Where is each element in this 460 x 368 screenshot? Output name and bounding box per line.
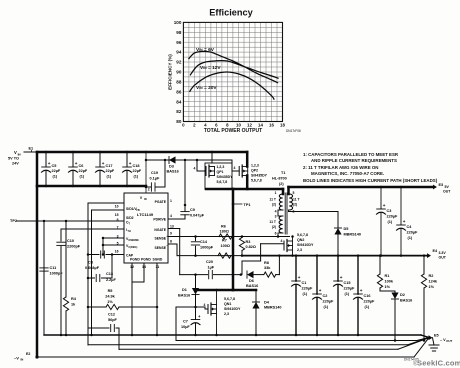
transistor QN1: [207, 305, 209, 314]
svg-text:D1: D1: [182, 288, 187, 292]
svg-text:Si9435DY: Si9435DY: [251, 174, 268, 178]
svg-text:Si9410DY: Si9410DY: [224, 307, 241, 311]
svg-text:C14: C14: [200, 240, 208, 244]
diode D5: [337, 212, 339, 229]
diode D3: [169, 156, 176, 163]
svg-text:18: 18: [280, 122, 285, 127]
svg-text:(1): (1): [324, 305, 329, 309]
svg-text:(2): (2): [272, 203, 276, 207]
svg-text:98: 98: [176, 30, 182, 35]
svg-text:PGND: PGND: [141, 258, 151, 262]
T1 core: [284, 193, 286, 234]
svg-text:QP2: QP2: [251, 169, 258, 173]
capacitor C17: [99, 152, 101, 167]
transistor QP2: [238, 167, 240, 176]
svg-text:10µF: 10µF: [181, 325, 190, 329]
resistor R5: [88, 306, 106, 308]
wire PGATE riser: [184, 160, 186, 205]
svg-text:+: +: [298, 275, 301, 280]
svg-text:FB: FB: [136, 209, 140, 212]
svg-text:D6: D6: [249, 279, 254, 283]
svg-text:1000pF: 1000pF: [200, 246, 214, 250]
svg-text:10: 10: [115, 205, 119, 209]
svg-text:(1): (1): [134, 175, 139, 179]
svg-text:12: 12: [247, 122, 252, 127]
svg-text:220µF: 220µF: [344, 287, 356, 291]
wire QN1 gate line: [176, 306, 205, 308]
svg-text:R2: R2: [429, 274, 434, 278]
wire 3.3V return line: [242, 255, 427, 257]
svg-text:C13: C13: [106, 272, 113, 276]
capacitor C19: [146, 186, 151, 188]
wire pin3/pin5 tie: [103, 237, 124, 239]
wire T1 center tap: [278, 209, 283, 211]
svg-text:VIN = 6V: VIN = 6V: [196, 47, 215, 53]
svg-text:10: 10: [236, 122, 241, 127]
svg-text:2,3: 2,3: [224, 312, 229, 316]
svg-text:TH: TH: [127, 230, 131, 233]
chart frame: [183, 22, 282, 121]
wire QN2 source: [292, 250, 294, 256]
wire C11 riser: [43, 221, 45, 335]
svg-text:124k: 124k: [429, 280, 438, 284]
capacitor C4: [400, 187, 402, 225]
svg-text:2,3: 2,3: [297, 248, 302, 252]
wire NGATE drop: [168, 228, 180, 230]
diode D6: [247, 271, 254, 278]
svg-text:OUT: OUT: [443, 190, 451, 194]
svg-text:R8: R8: [264, 261, 269, 265]
capacitor C18: [126, 152, 128, 167]
transistor QN2: [283, 241, 285, 250]
svg-text:C6: C6: [79, 164, 84, 168]
svg-text:1: CAPACITORS PARALLELED TO ME: 1: CAPACITORS PARALLELED TO MEET ESR: [303, 152, 399, 157]
svg-text:C8: C8: [88, 261, 93, 265]
wire QN2 drain: [292, 237, 294, 242]
svg-text:BAS16: BAS16: [167, 170, 179, 174]
svg-text:QP1: QP1: [217, 170, 224, 174]
svg-text:0.047µF: 0.047µF: [190, 214, 205, 218]
capacitor C3: [380, 187, 382, 209]
svg-text:+: +: [102, 161, 105, 166]
wire bold return mid: [196, 289, 234, 292]
resistor R4: [65, 221, 67, 297]
svg-text:16: 16: [269, 122, 274, 127]
svg-text:22µF: 22µF: [133, 169, 142, 173]
svg-text:–V: –V: [14, 356, 19, 361]
svg-text:PDRIVE: PDRIVE: [153, 218, 166, 222]
svg-text:D3: D3: [169, 165, 174, 169]
svg-text:TOTAL POWER OUTPUT: TOTAL POWER OUTPUT: [204, 128, 262, 134]
wire QN1 source: [216, 314, 218, 336]
svg-text:C1: C1: [302, 281, 307, 285]
svg-text:MBRS140: MBRS140: [344, 233, 362, 237]
svg-text:14: 14: [258, 122, 263, 127]
svg-text:4: 4: [275, 210, 277, 214]
svg-text:– V: – V: [440, 338, 446, 342]
svg-text:1: 1: [170, 199, 172, 203]
capacitor C15: [337, 256, 339, 281]
wire QP1 drain to rail: [211, 152, 213, 163]
svg-text:(2): (2): [272, 225, 276, 229]
resistor R3: [241, 235, 244, 238]
svg-text:96: 96: [176, 40, 182, 45]
svg-text:5,6,7,8: 5,6,7,8: [297, 233, 308, 237]
svg-text:+: +: [340, 275, 343, 280]
svg-text:NGATE: NGATE: [154, 228, 166, 232]
svg-text:E1: E1: [29, 147, 34, 151]
svg-text:C7: C7: [183, 320, 188, 324]
node E2 / wire -VIN bus: [37, 356, 414, 358]
svg-text:Si9435DY: Si9435DY: [217, 175, 234, 179]
svg-text:PGATE: PGATE: [155, 200, 167, 204]
svg-text:SGND: SGND: [153, 258, 163, 262]
svg-text:DN17•F05: DN17•F05: [404, 358, 419, 362]
svg-text:SENSE: SENSE: [155, 246, 167, 250]
svg-text:2.2µF: 2.2µF: [106, 278, 116, 282]
capacitor C9: [184, 205, 186, 212]
svg-text:1,2,3: 1,2,3: [217, 165, 225, 169]
svg-text:BOLD LINES INDICATES HIGH CURR: BOLD LINES INDICATES HIGH CURRENT PATH (…: [303, 178, 438, 183]
svg-text:11 T: 11 T: [269, 198, 277, 202]
svg-text:1: 1: [275, 191, 277, 195]
svg-text:(1): (1): [408, 236, 413, 240]
wire QP2 gate: [231, 160, 233, 171]
capacitor C13: [88, 277, 95, 279]
svg-text:92: 92: [176, 60, 182, 65]
svg-text:220µF: 220µF: [364, 300, 376, 304]
node E4: [427, 253, 431, 258]
svg-text:11 T: 11 T: [293, 198, 301, 202]
diode D1: [195, 275, 197, 288]
wire S/D2 (pin15): [92, 209, 125, 211]
capacitor C12: [88, 327, 109, 329]
capacitor C11: [40, 267, 48, 269]
svg-text:(1): (1): [53, 175, 58, 179]
wire input cap bottom rail: [37, 185, 146, 188]
svg-text:13: 13: [170, 225, 174, 229]
wire ground bus B (y340.5): [176, 340, 417, 342]
wire gate drive line: [146, 159, 232, 161]
svg-text:4: 4: [194, 167, 196, 171]
svg-text:+: +: [48, 161, 51, 166]
svg-text:(1): (1): [80, 175, 85, 179]
svg-text:220µF: 220µF: [407, 231, 419, 235]
wire CAP pin / capacitor C8: [88, 254, 99, 256]
svg-text:C17: C17: [106, 164, 113, 168]
wire PGND pins: [131, 263, 133, 282]
wire x88 to bus: [87, 328, 89, 345]
capacitor C14: [195, 237, 197, 241]
resistor R2: [423, 256, 425, 274]
svg-text:TP2: TP2: [10, 219, 17, 223]
svg-text:C(REG): C(REG): [128, 246, 137, 249]
svg-text:33k: 33k: [264, 266, 271, 270]
svg-text:100k: 100k: [385, 280, 394, 284]
svg-text:94: 94: [176, 50, 182, 55]
svg-text:2: 11 T TRIFILAR AWG #26 WIRE: 2: 11 T TRIFILAR AWG #26 WIRE ON: [303, 165, 378, 170]
svg-text:E3: E3: [439, 183, 444, 187]
svg-text:16: 16: [115, 250, 119, 254]
wire SGND pin 11: [156, 263, 158, 335]
svg-text:C18: C18: [133, 164, 140, 168]
svg-text:5,6,7,8: 5,6,7,8: [251, 179, 262, 183]
svg-text:4: 4: [170, 214, 172, 218]
svg-text:BAS16: BAS16: [246, 284, 258, 288]
svg-text:24.9k: 24.9k: [105, 295, 115, 299]
node TP1: [232, 189, 235, 290]
svg-text:R3: R3: [246, 240, 251, 244]
svg-text:86: 86: [176, 89, 182, 94]
wire ground bus C (y344.8): [88, 344, 408, 346]
svg-text:0.068µF: 0.068µF: [85, 266, 100, 270]
svg-text:22µF: 22µF: [52, 169, 61, 173]
svg-text:T1: T1: [281, 171, 285, 175]
wire S/D1 (pin10): [88, 202, 124, 204]
svg-text:QN1: QN1: [224, 302, 231, 306]
svg-text:(1): (1): [345, 292, 350, 296]
wire PDRIVE to C9: [168, 218, 185, 220]
wire VIN drop to IC pin 2: [145, 152, 147, 193]
wire R8 up to return: [278, 256, 280, 275]
svg-text:SENSE: SENSE: [155, 237, 167, 241]
svg-text:80: 80: [176, 119, 182, 124]
resistor R1: [379, 256, 381, 274]
capacitor C1: [295, 256, 297, 281]
svg-text:0.82Ω: 0.82Ω: [246, 245, 256, 249]
svg-text:5,6,7,8: 5,6,7,8: [224, 297, 235, 301]
svg-text:C2: C2: [323, 294, 328, 298]
svg-text:1,2,3: 1,2,3: [251, 164, 259, 168]
svg-text:11 T: 11 T: [269, 220, 277, 224]
svg-text:(1): (1): [303, 292, 308, 296]
svg-text:D5: D5: [344, 227, 349, 231]
svg-text:C11: C11: [50, 266, 57, 270]
svg-text:6: 6: [275, 232, 277, 236]
svg-text:56pF: 56pF: [108, 318, 118, 322]
svg-text:2: 2: [148, 188, 150, 192]
wire QN1 drain: [216, 290, 218, 305]
svg-text:PGND: PGND: [130, 258, 140, 262]
svg-text:TP1: TP1: [244, 203, 251, 207]
wire secondary pin2: [288, 210, 290, 212]
wire QP2 drain from rail: [246, 152, 249, 167]
svg-text:C15: C15: [344, 281, 351, 285]
svg-text:9: 9: [170, 232, 172, 236]
svg-text:Efficiency: Efficiency: [209, 8, 253, 18]
svg-text:BAS16: BAS16: [400, 299, 412, 303]
resistor R7: [218, 253, 231, 258]
svg-text:220µF: 220µF: [302, 287, 314, 291]
wire SENSE+ line: [168, 236, 290, 238]
capacitor C7: [195, 307, 197, 320]
wire ITH pin to C10: [61, 228, 124, 230]
svg-text:(2): (2): [293, 203, 297, 207]
svg-text:5: 5: [293, 191, 295, 195]
svg-text:IN: IN: [21, 358, 24, 362]
svg-text:8: 8: [170, 240, 172, 244]
capacitor C20: [180, 274, 208, 276]
svg-text:+: +: [129, 161, 132, 166]
svg-text:C9: C9: [190, 208, 195, 212]
svg-text:MBRS140: MBRS140: [264, 306, 282, 310]
svg-text:C20: C20: [206, 260, 213, 264]
svg-text:22µF: 22µF: [79, 169, 88, 173]
svg-text:180Ω: 180Ω: [220, 230, 229, 234]
svg-text:LTC1149: LTC1149: [137, 212, 154, 217]
svg-text:3: 3: [275, 215, 277, 219]
capacitor C10: [57, 241, 65, 243]
svg-text:(1): (1): [388, 220, 393, 224]
svg-text:+: +: [75, 161, 78, 166]
svg-text:S/D2: S/D2: [126, 216, 134, 220]
svg-text:15: 15: [115, 213, 119, 217]
wire QP1 gate entry: [197, 170, 206, 172]
svg-text:1µF: 1µF: [208, 266, 215, 270]
svg-text:IN: IN: [144, 197, 147, 201]
capacitor C6: [72, 152, 74, 167]
wire ground bus A (y335): [44, 334, 421, 336]
svg-text:QN2: QN2: [297, 238, 304, 242]
svg-text:100: 100: [174, 20, 182, 25]
svg-text:R6: R6: [221, 225, 226, 229]
svg-text:OSENSE: OSENSE: [128, 239, 139, 242]
wire C12 to bus: [118, 328, 120, 350]
svg-text:100Ω: 100Ω: [221, 244, 230, 248]
svg-text:V: V: [14, 150, 17, 155]
svg-text:E2: E2: [26, 352, 30, 356]
svg-text:+: +: [403, 219, 406, 224]
svg-text:Si9410DY: Si9410DY: [297, 243, 314, 247]
svg-text:+: +: [360, 288, 363, 293]
wire 5V output line: [289, 186, 434, 189]
svg-text:DN17•F06: DN17•F06: [286, 129, 301, 133]
svg-text:220µF: 220µF: [323, 300, 335, 304]
svg-text:+: +: [319, 288, 322, 293]
svg-text:C12: C12: [108, 313, 115, 317]
svg-text:E5: E5: [434, 334, 439, 338]
node E3: [433, 185, 437, 190]
svg-text:84: 84: [176, 99, 182, 104]
wire QN2 gate staircase: [241, 261, 243, 275]
svg-text:22µF: 22µF: [106, 169, 115, 173]
svg-text:SeekIC.com: SeekIC.com: [417, 359, 460, 368]
transistor QP1: [205, 163, 232, 189]
svg-text:OUT: OUT: [446, 339, 452, 343]
wire bold return mid right: [233, 289, 256, 292]
svg-text:5V: 5V: [445, 185, 450, 189]
svg-text:3.3V: 3.3V: [439, 251, 447, 255]
svg-text:24V: 24V: [12, 162, 19, 166]
wire secondary pin5 to 5V: [287, 187, 290, 194]
svg-text:(2): (2): [279, 182, 284, 186]
svg-text:0.1µF: 0.1µF: [150, 177, 160, 181]
svg-text:4: 4: [281, 239, 283, 243]
wire left bus (-VIN vertical): [36, 152, 39, 357]
diode D4: [255, 290, 257, 302]
wire ground bus D (y349.2): [119, 348, 398, 350]
svg-text:MAGNETICS, INC. 77050-A7 CORE.: MAGNETICS, INC. 77050-A7 CORE.: [311, 171, 384, 176]
node E5: [429, 335, 433, 340]
svg-text:HL-8700: HL-8700: [272, 177, 287, 181]
svg-text:OUT: OUT: [439, 256, 447, 260]
svg-text:D2: D2: [400, 293, 405, 297]
capacitor C16: [357, 256, 359, 294]
svg-text:AND RIPPLE CURRENT REQUIREMENT: AND RIPPLE CURRENT REQUIREMENTS: [311, 158, 397, 163]
capacitor C2: [316, 256, 318, 294]
svg-text:2200pF: 2200pF: [67, 245, 81, 249]
svg-text:220µF: 220µF: [387, 215, 399, 219]
resistor R8: [254, 274, 264, 276]
wire C19 to gate line: [164, 160, 166, 187]
wire QP2 source to primary: [246, 176, 249, 190]
svg-text:1%: 1%: [385, 285, 391, 289]
chart grid and curves: [174, 20, 286, 127]
ground symbol: [433, 338, 435, 345]
diode D2: [380, 290, 395, 292]
svg-text:5V TO: 5V TO: [8, 157, 19, 161]
svg-text:R7: R7: [222, 239, 227, 243]
svg-text:C19: C19: [151, 171, 158, 175]
wire QP1 gate stub: [196, 160, 198, 171]
svg-text:1%: 1%: [107, 300, 113, 304]
watermark: [404, 358, 460, 368]
capacitor C5: [45, 152, 47, 167]
svg-text:4: 4: [204, 303, 206, 307]
svg-text:(1): (1): [365, 305, 370, 309]
svg-text:4: 4: [234, 166, 236, 170]
svg-text:C10: C10: [67, 239, 74, 243]
svg-text:C5: C5: [52, 164, 57, 168]
svg-text:BAS16: BAS16: [178, 294, 190, 298]
op-amp U1 LTC1149 box: [124, 193, 168, 263]
svg-text:(1): (1): [107, 175, 112, 179]
svg-text:1%: 1%: [429, 285, 435, 289]
svg-text:5,6,7,8: 5,6,7,8: [217, 180, 228, 184]
svg-text:+: +: [383, 203, 386, 208]
wire T1 pin6 down: [278, 232, 283, 234]
svg-text:R1: R1: [385, 274, 390, 278]
wire SENSE- line: [168, 243, 177, 245]
svg-text:90: 90: [176, 70, 182, 75]
svg-text:C16: C16: [364, 294, 371, 298]
svg-text:82: 82: [176, 109, 182, 114]
svg-text:EFFICIENCY (%): EFFICIENCY (%): [168, 54, 173, 90]
svg-text:88: 88: [176, 80, 182, 85]
svg-text:C3: C3: [387, 209, 392, 213]
svg-text:R5: R5: [108, 289, 113, 293]
resistor R6: [219, 234, 232, 239]
